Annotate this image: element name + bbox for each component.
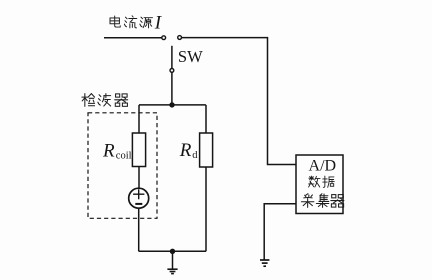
- label 采集器 (acquisition unit): [301, 194, 344, 208]
- label R_coil: [102, 140, 132, 161]
- thermo-EMF source circle: [129, 188, 149, 208]
- resistor R_coil: [132, 133, 145, 167]
- wire: top node horizontal: [139, 104, 206, 106]
- wire: node to R_coil: [138, 105, 140, 133]
- wire: switch to A/D box upper input (right rail): [182, 38, 296, 165]
- switch SW right contact: [178, 36, 182, 40]
- wire: source to bottom: [138, 208, 140, 252]
- svg-text:d: d: [192, 150, 198, 161]
- wire: node to R_d: [205, 105, 207, 133]
- ground left bars: [167, 269, 177, 273]
- wire: SW pole to node: [171, 72, 173, 105]
- label 数据 (data): [309, 176, 335, 187]
- svg-text:A/D: A/D: [309, 157, 337, 174]
- wire: SW pole upper segment: [171, 46, 173, 69]
- switch SW left contact: [162, 36, 166, 40]
- A/D data acquisition box: [296, 155, 343, 214]
- switch SW pole contact: [170, 69, 174, 73]
- label 检波器 (detector): [82, 94, 128, 107]
- wire: current source lead: [104, 37, 162, 39]
- label R_d: [179, 140, 199, 161]
- wire: A/D box lower to ground: [264, 204, 296, 260]
- junction dot top: [169, 102, 174, 107]
- ground right bars: [260, 260, 269, 266]
- detector dashed box: [88, 113, 157, 219]
- resistor R_d: [200, 133, 213, 167]
- svg-text:coil: coil: [116, 150, 132, 161]
- wire: bottom horizontal: [139, 250, 206, 252]
- minus mark: [135, 203, 142, 205]
- svg-text:R: R: [179, 140, 192, 161]
- wire: R_d to bottom: [205, 167, 207, 251]
- junction dot bottom: [170, 249, 175, 254]
- svg-text:SW: SW: [178, 47, 203, 66]
- plus mark: [133, 189, 144, 199]
- svg-text:R: R: [102, 140, 115, 161]
- wire: R_coil to source: [138, 167, 140, 189]
- label 电流源I (current source I): [110, 12, 163, 33]
- ground left stem: [172, 251, 174, 269]
